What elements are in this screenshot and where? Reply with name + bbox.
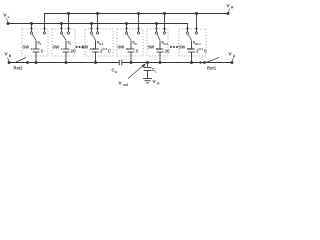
svg-text:B: B xyxy=(115,70,117,74)
label capacitor value C xyxy=(136,49,139,54)
label SWN+1 xyxy=(148,45,162,51)
capacitor CN-2 plates xyxy=(92,49,99,52)
cell 4 dashed box xyxy=(117,29,143,56)
switch SW2N-1 lever xyxy=(188,34,191,40)
node VB terminal xyxy=(8,58,11,64)
svg-text:L: L xyxy=(155,69,157,73)
switch SWN throw contacts xyxy=(125,32,139,34)
label switch designator S0 xyxy=(37,41,41,46)
switch Rst2 lever and contact xyxy=(15,58,29,64)
switch Rst1 lever and contact xyxy=(203,58,232,64)
svg-text:SW: SW xyxy=(118,45,125,50)
wire stub from upper rail to right throw of SWN+1 xyxy=(163,12,166,32)
label switch designator SN-2 xyxy=(97,41,104,46)
capacitor CB series bridge plates xyxy=(119,60,122,66)
ellipsis between cell 5 and cell 6 xyxy=(170,46,178,48)
label VL xyxy=(3,13,9,20)
switch SWN+1 throw contacts xyxy=(155,32,165,34)
wire stub from lower rail to left throw of SW0 xyxy=(30,22,33,32)
label capacitor value 2C xyxy=(71,49,76,54)
wire bottom output rail left segment xyxy=(9,62,119,64)
label VH xyxy=(227,3,235,10)
switch SW1 throw contacts xyxy=(60,32,69,34)
svg-text:C: C xyxy=(136,49,139,54)
wire upper rail VH xyxy=(44,13,228,15)
svg-text:N-2: N-2 xyxy=(99,42,104,46)
wire switch common down to capacitor xyxy=(65,41,67,50)
capacitor CL plates xyxy=(144,68,152,71)
label VA xyxy=(229,52,236,59)
capacitor CN+1 plates xyxy=(157,49,164,52)
arrow from Vout label to output rail xyxy=(128,63,146,78)
label Vout xyxy=(119,81,129,88)
svg-text:SW: SW xyxy=(53,45,60,50)
switch SW0 throw contacts xyxy=(30,32,45,34)
switch SW2N-1 throw contacts xyxy=(186,32,197,34)
wire capacitor bottom to output rail xyxy=(190,52,193,64)
label SW1 xyxy=(53,45,63,51)
wire output node to load capacitor xyxy=(147,63,149,68)
svg-text:2N-1: 2N-1 xyxy=(195,42,201,46)
label VG xyxy=(153,79,160,86)
svg-text:C: C xyxy=(108,49,111,54)
label VB xyxy=(5,52,12,59)
switch SW1 lever xyxy=(62,34,66,40)
wire capacitor bottom to output rail xyxy=(65,52,68,64)
wire switch common down to capacitor xyxy=(95,41,97,50)
capacitor C1 plates xyxy=(63,49,70,52)
label SWN-2 xyxy=(82,45,95,51)
svg-text:L: L xyxy=(8,15,10,19)
svg-text:2C: 2C xyxy=(71,49,76,54)
svg-text:Rst2: Rst2 xyxy=(14,66,24,71)
label CB xyxy=(112,68,117,74)
label CL xyxy=(152,67,157,73)
wire capacitor bottom to output rail xyxy=(94,52,97,64)
label SWN xyxy=(118,45,128,51)
cell 6 dashed box xyxy=(179,29,206,56)
wire stub from lower rail to left throw of SWN xyxy=(125,22,128,32)
wire stub from upper rail to right throw of SW0 xyxy=(43,14,45,32)
wire bottom output rail right segment xyxy=(122,62,232,64)
wire stub from lower rail to left throw of SWN+1 xyxy=(155,22,158,32)
svg-text:Rst1: Rst1 xyxy=(207,66,217,71)
svg-text:2C: 2C xyxy=(165,49,170,54)
wire stub from lower rail to left throw of SWN-2 xyxy=(90,22,93,32)
wire stub from upper rail to right throw of SW2N-1 xyxy=(195,12,198,32)
node junction before Rst1 xyxy=(199,61,201,63)
wire switch common down to capacitor xyxy=(191,41,193,50)
wire capacitor bottom to output rail xyxy=(35,52,38,64)
label capacitor value 2N-1 xyxy=(196,47,207,53)
switch SWN-2 lever xyxy=(92,34,95,40)
label switch designator SN xyxy=(132,41,136,46)
wire capacitor bottom to output rail xyxy=(159,52,162,64)
label Rst2 xyxy=(14,66,24,71)
label SW0 xyxy=(23,45,33,51)
ground symbol xyxy=(143,79,152,83)
svg-text:N: N xyxy=(135,42,137,46)
wire stub from upper rail to right throw of SW1 xyxy=(67,12,70,32)
capacitor CN plates xyxy=(128,49,135,52)
wire stub from lower rail to left throw of SW2N-1 xyxy=(186,24,188,32)
svg-text:SW: SW xyxy=(179,45,186,50)
cell 5 dashed box xyxy=(147,29,168,56)
svg-text:C: C xyxy=(204,49,207,54)
svg-text:SW: SW xyxy=(23,45,30,50)
switch SWN-2 throw contacts xyxy=(90,32,98,34)
svg-text:N+1: N+1 xyxy=(164,42,169,46)
capacitor C0 plates xyxy=(33,49,40,52)
label switch designator SN+1 xyxy=(161,41,169,46)
wire lower rail VL xyxy=(8,23,188,25)
wire switch common down to capacitor xyxy=(159,41,161,50)
cell 3 dashed box xyxy=(85,29,113,56)
svg-text:C: C xyxy=(41,49,44,54)
node VA terminal xyxy=(231,58,234,64)
wire stub from upper rail to right throw of SWN xyxy=(137,12,140,32)
ellipsis between cell 2 and cell 3 xyxy=(76,46,84,48)
svg-text:N: N xyxy=(126,47,128,51)
node VH terminal xyxy=(227,9,230,15)
label SW2N-1 xyxy=(179,45,194,51)
svg-text:SW: SW xyxy=(148,45,155,50)
label capacitor value C xyxy=(41,49,44,54)
node VL terminal xyxy=(7,19,10,25)
wire stub from lower rail to left throw of SW1 xyxy=(60,22,63,32)
wire switch common down to capacitor xyxy=(35,41,37,50)
switch SW0 lever xyxy=(32,34,36,40)
wire capacitor bottom to output rail xyxy=(130,52,133,64)
wire load capacitor to ground xyxy=(147,71,149,79)
wire switch common down to capacitor xyxy=(130,41,132,50)
node Vout junction xyxy=(146,61,149,64)
switch SWN+1 lever xyxy=(157,34,160,40)
label switch designator S2N-1 xyxy=(193,41,202,46)
cell 2 dashed box xyxy=(52,29,75,56)
label Rst1 xyxy=(207,66,217,71)
label capacitor value 2N-2 xyxy=(100,47,111,53)
switch SWN lever xyxy=(127,34,131,40)
label switch designator S1 xyxy=(67,41,71,46)
label capacitor value 2C xyxy=(165,49,170,54)
capacitor C2N-1 plates xyxy=(188,49,195,52)
wire stub from upper rail to right throw of SWN-2 xyxy=(96,12,99,32)
cell 1 dashed box xyxy=(22,29,48,56)
